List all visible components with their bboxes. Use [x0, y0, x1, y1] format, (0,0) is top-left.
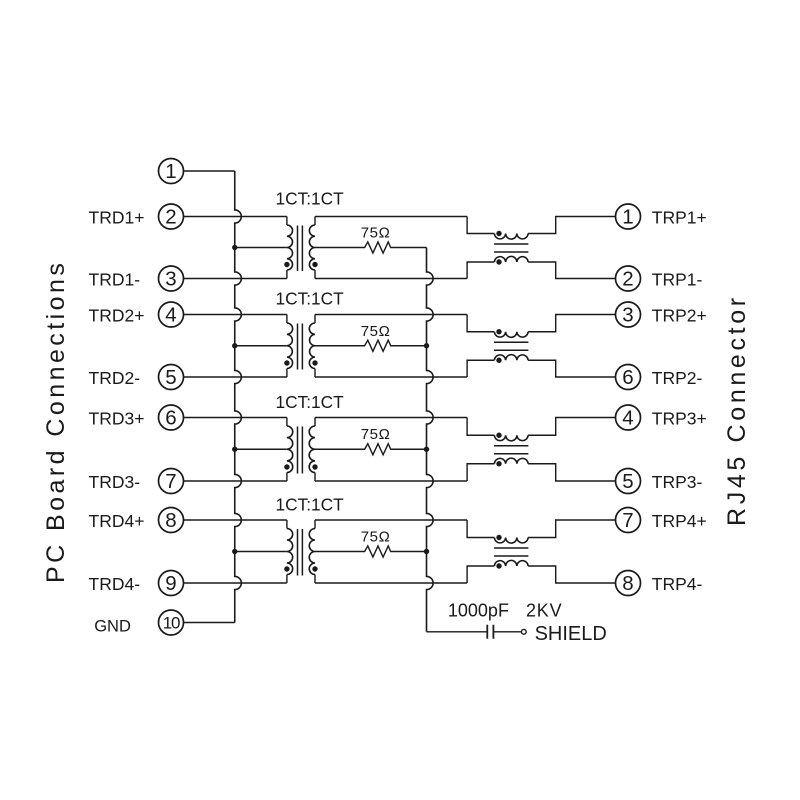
transformer T1 primary winding (4 arcs): [287, 225, 293, 270]
PC-board connector pin 9: [159, 571, 184, 596]
junction dot: T1 primary center tap on bus: [232, 245, 237, 250]
svg-text:4: 4: [165, 304, 176, 327]
transformer T4 secondary winding stub leads: [314, 520, 316, 583]
transformer T4 primary winding (4 arcs): [287, 529, 293, 575]
transformer T4 core: [298, 529, 303, 576]
svg-text:TRD2-: TRD2-: [89, 368, 141, 388]
transformer T1 primary winding stub leads: [286, 217, 288, 279]
svg-text:1000pF: 1000pF: [448, 600, 509, 620]
wire T4 primary center tap to bus: [235, 551, 287, 553]
svg-text:1CT:1CT: 1CT:1CT: [276, 289, 345, 309]
wire T2 secondary bottom to choke L2: [315, 376, 467, 378]
wire choke L1 bottom lead-out to RJ45 pin: [528, 262, 615, 279]
wire choke L2 top lead-in: [467, 315, 494, 332]
PC-board connector pin 7: [159, 469, 184, 494]
choke L4 bottom phase dot: [496, 563, 501, 568]
transformer T2 core: [298, 324, 303, 370]
choke L2 core: [494, 342, 528, 350]
wire termination bus to capacitor C1: [427, 631, 488, 633]
transformer T1 secondary winding (4 arcs): [309, 225, 315, 270]
wire choke L1 top lead-out to RJ45 pin: [528, 217, 615, 234]
svg-text:TRD3+: TRD3+: [89, 409, 145, 429]
wire choke L4 top lead-in: [467, 520, 494, 538]
PC-board connector pin 10: [159, 610, 184, 635]
svg-text:TRD4-: TRD4-: [89, 574, 141, 594]
choke L4 top winding (3 arcs): [494, 538, 528, 544]
svg-text:PC Board Connections: PC Board Connections: [42, 260, 70, 583]
svg-text:TRP1-: TRP1-: [652, 270, 703, 290]
wire TRD3- pin to T3 primary bottom: [184, 480, 287, 482]
wire T2 primary center tap to bus: [235, 345, 287, 347]
wire TRD2- pin to T2 primary bottom: [184, 376, 287, 378]
wire TRD4+ pin to T4 primary top: [184, 519, 287, 521]
PC-board connector pin 8: [159, 508, 184, 533]
svg-text:RJ45 Connector: RJ45 Connector: [723, 294, 751, 526]
wire capacitor C1 to shield terminal: [493, 631, 521, 633]
svg-text:3: 3: [165, 268, 176, 291]
resistor R2 75-ohm (center-tap termination): [315, 340, 427, 351]
wire pin 1 to primary center-tap bus: [184, 170, 235, 172]
choke L2 bottom phase dot: [496, 358, 501, 363]
choke L2 bottom winding (3 arcs): [494, 355, 528, 361]
wire choke L2 top lead-out to RJ45 pin: [528, 315, 615, 332]
svg-text:TRP3-: TRP3-: [652, 472, 703, 492]
transformer T3 primary phase dot: [284, 464, 289, 469]
transformer T2 secondary winding stub leads: [314, 315, 316, 378]
svg-text:7: 7: [622, 509, 633, 532]
choke L4 bottom winding (3 arcs): [494, 560, 528, 566]
wire T3 secondary bottom to choke L3: [315, 480, 467, 482]
svg-text:9: 9: [165, 572, 176, 595]
junction dot: T2 primary center tap on bus: [232, 343, 237, 348]
svg-text:75Ω: 75Ω: [361, 323, 391, 340]
svg-text:TRD1+: TRD1+: [89, 208, 145, 228]
capacitor C1 1000pF 2KV plates: [487, 625, 493, 639]
svg-text:2: 2: [165, 206, 176, 229]
resistor R3 75-ohm (center-tap termination): [315, 444, 427, 455]
wire T3 primary center tap to bus: [235, 448, 287, 450]
junction dot: R2 on termination bus: [424, 343, 429, 348]
svg-text:75Ω: 75Ω: [361, 426, 391, 443]
wire T4 secondary top to choke L4: [315, 519, 467, 521]
svg-text:3: 3: [622, 304, 633, 327]
PC-board connector pin 1: [159, 159, 184, 184]
transformer T3 core: [298, 427, 303, 474]
transformer T2 secondary phase dot: [312, 360, 317, 365]
wire TRD3+ pin to T3 primary top: [184, 417, 287, 419]
PC-board connector pin 6: [159, 405, 184, 430]
PC-board connector pin 3: [159, 266, 184, 291]
PC-board connector pin 2: [159, 204, 184, 229]
junction dot: R3 on termination bus: [424, 447, 429, 452]
choke L4 core: [494, 548, 528, 556]
choke L1 bottom winding (3 arcs): [494, 256, 528, 262]
svg-text:10: 10: [163, 614, 180, 633]
transformer T4 secondary phase dot: [312, 566, 317, 571]
transformer T2 primary winding (4 arcs): [287, 323, 293, 369]
shield open terminal: [521, 629, 526, 634]
svg-text:2KV: 2KV: [526, 600, 562, 620]
svg-text:75Ω: 75Ω: [361, 529, 391, 546]
choke L3 top winding (3 arcs): [494, 435, 528, 441]
wire choke L3 bottom lead-in: [467, 464, 494, 481]
RJ45 connector pin 3: [616, 302, 641, 327]
choke L3 top phase dot: [496, 433, 501, 438]
transformer T1 secondary winding stub leads: [314, 217, 316, 279]
svg-text:GND: GND: [94, 617, 131, 635]
PC-board connector pin 4: [159, 302, 184, 327]
wire choke L1 top lead-in: [467, 217, 494, 234]
wire pin 10 (GND) to primary center-tap bus: [184, 622, 235, 624]
transformer T3 secondary winding (4 arcs): [309, 426, 315, 473]
wire choke L4 bottom lead-out to RJ45 pin: [528, 566, 615, 583]
RJ45 connector pin 8: [616, 571, 641, 596]
transformer T1 secondary phase dot: [312, 262, 317, 267]
wire TRD1+ pin to T1 primary top: [184, 216, 287, 218]
svg-text:6: 6: [622, 366, 633, 389]
wire TRD2+ pin to T2 primary top: [184, 314, 287, 316]
svg-text:7: 7: [165, 470, 176, 493]
junction dot: T4 primary center tap on bus: [232, 549, 237, 554]
svg-text:5: 5: [165, 366, 176, 389]
RJ45 connector pin 7: [616, 508, 641, 533]
svg-text:TRD3-: TRD3-: [89, 472, 141, 492]
wire T2 secondary top to choke L2: [315, 314, 467, 316]
svg-text:1: 1: [165, 160, 176, 183]
svg-text:TRP2-: TRP2-: [652, 368, 703, 388]
svg-text:4: 4: [622, 407, 633, 430]
choke L3 bottom phase dot: [496, 461, 501, 466]
wire TRD4- pin to T4 primary bottom: [184, 582, 287, 584]
svg-text:8: 8: [622, 572, 633, 595]
svg-text:TRP4+: TRP4+: [652, 511, 707, 531]
transformer T4 secondary winding (4 arcs): [309, 529, 315, 575]
wire T1 secondary bottom to choke L1: [315, 278, 467, 280]
transformer T2 secondary winding (4 arcs): [309, 323, 315, 369]
junction dot: T3 primary center tap on bus: [232, 447, 237, 452]
wire T1 primary center tap to bus: [235, 247, 287, 249]
transformer T3 secondary winding stub leads: [314, 418, 316, 482]
transformer T3 secondary phase dot: [312, 464, 317, 469]
choke L3 core: [494, 446, 528, 454]
svg-text:TRD1-: TRD1-: [89, 270, 141, 290]
transformer T3 primary winding stub leads: [286, 418, 288, 482]
svg-text:75Ω: 75Ω: [361, 225, 391, 242]
svg-text:SHIELD: SHIELD: [535, 623, 607, 645]
primary center-tap bus (pin1/pin10/GND net) with wire hops: [235, 171, 242, 623]
svg-text:6: 6: [165, 407, 176, 430]
svg-text:TRP4-: TRP4-: [652, 574, 703, 594]
choke L2 top winding (3 arcs): [494, 332, 528, 338]
svg-text:1: 1: [622, 206, 633, 229]
choke L1 core: [494, 244, 528, 252]
transformer T3 primary winding (4 arcs): [287, 426, 293, 473]
svg-text:5: 5: [622, 470, 633, 493]
choke L3 bottom winding (3 arcs): [494, 458, 528, 464]
wire choke L3 top lead-in: [467, 418, 494, 436]
transformer T4 primary winding stub leads: [286, 520, 288, 583]
PC-board connector pin 5: [159, 365, 184, 390]
wire T4 secondary bottom to choke L4: [315, 582, 467, 584]
transformer T1 primary phase dot: [284, 262, 289, 267]
svg-text:2: 2: [622, 268, 633, 291]
RJ45 connector pin 6: [616, 365, 641, 390]
svg-text:TRP1+: TRP1+: [652, 208, 707, 228]
transformer T4 primary phase dot: [284, 566, 289, 571]
svg-text:TRP2+: TRP2+: [652, 306, 707, 326]
transformer T2 primary winding stub leads: [286, 315, 288, 378]
wire choke L4 bottom lead-in: [467, 566, 494, 583]
svg-text:TRD4+: TRD4+: [89, 511, 145, 531]
choke L1 bottom phase dot: [496, 259, 501, 264]
75-ohm common termination bus with wire hops: [427, 248, 434, 632]
wire choke L4 top lead-out to RJ45 pin: [528, 520, 615, 538]
choke L1 top phase dot: [496, 231, 501, 236]
wire TRD1- pin to T1 primary bottom: [184, 278, 287, 280]
wire choke L3 bottom lead-out to RJ45 pin: [528, 464, 615, 481]
choke L1 top winding (3 arcs): [494, 234, 528, 240]
RJ45 connector pin 4: [616, 405, 641, 430]
svg-text:8: 8: [165, 509, 176, 532]
resistor R1 75-ohm (center-tap termination): [315, 242, 427, 253]
RJ45 connector pin 1: [616, 204, 641, 229]
choke L4 top phase dot: [496, 535, 501, 540]
wire T1 secondary top to choke L1: [315, 216, 467, 218]
RJ45 connector pin 5: [616, 469, 641, 494]
RJ45 connector pin 2: [616, 266, 641, 291]
wire choke L2 bottom lead-in: [467, 360, 494, 377]
wire T3 secondary top to choke L3: [315, 417, 467, 419]
svg-text:1CT:1CT: 1CT:1CT: [276, 495, 345, 515]
wire choke L1 bottom lead-in: [467, 262, 494, 279]
wire choke L3 top lead-out to RJ45 pin: [528, 418, 615, 436]
svg-text:1CT:1CT: 1CT:1CT: [276, 392, 345, 412]
svg-text:TRP3+: TRP3+: [652, 409, 707, 429]
choke L2 top phase dot: [496, 329, 501, 334]
wire choke L2 bottom lead-out to RJ45 pin: [528, 360, 615, 377]
svg-text:TRD2+: TRD2+: [89, 306, 145, 326]
svg-text:1CT:1CT: 1CT:1CT: [276, 189, 345, 209]
transformer T1 core: [298, 226, 303, 272]
junction dot: R4 on termination bus: [424, 549, 429, 554]
resistor R4 75-ohm (center-tap termination): [315, 546, 427, 557]
transformer T2 primary phase dot: [284, 360, 289, 365]
